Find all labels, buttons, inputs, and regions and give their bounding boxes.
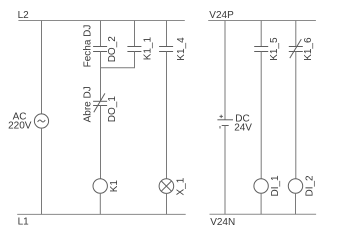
wire <box>166 193 168 214</box>
svg-text:V24N: V24N <box>210 217 235 228</box>
coil DI_2 <box>288 179 302 193</box>
wire <box>260 21 262 47</box>
svg-text:K1_5: K1_5 <box>269 37 280 61</box>
svg-text:Abre DJ: Abre DJ <box>83 86 94 122</box>
wire <box>134 21 136 47</box>
source G1 AC 220V <box>34 114 48 128</box>
wire <box>295 52 297 179</box>
wire <box>295 21 297 47</box>
source G2 battery DC 24V <box>217 120 233 126</box>
wire <box>100 52 134 68</box>
wire <box>166 52 168 179</box>
contact K1_4 (NO) <box>159 47 173 52</box>
value label DC 24V <box>234 113 252 133</box>
rail L2 <box>18 20 184 22</box>
wire <box>295 193 297 214</box>
svg-text:DO_2: DO_2 <box>107 36 118 63</box>
contact K1_6 (NC) <box>289 39 303 58</box>
coil K1 <box>93 179 107 193</box>
svg-text:24V: 24V <box>234 123 252 134</box>
svg-text:DI_1: DI_1 <box>270 175 281 197</box>
coil DI_1 <box>254 179 268 193</box>
wire <box>100 106 102 179</box>
wire <box>41 128 43 214</box>
wire <box>166 21 168 47</box>
svg-text:X_1: X_1 <box>176 177 187 195</box>
svg-text:L1: L1 <box>18 217 30 228</box>
rail L1 <box>17 213 186 215</box>
svg-text:DI_2: DI_2 <box>305 175 316 197</box>
svg-text:L2: L2 <box>18 10 30 21</box>
svg-text:K1_4: K1_4 <box>176 37 187 61</box>
wire <box>99 193 101 214</box>
contact K1_5 (NO) <box>254 47 268 52</box>
svg-text:DO_1: DO_1 <box>107 96 118 123</box>
svg-text:220V: 220V <box>8 121 32 132</box>
svg-text:K1: K1 <box>109 180 120 193</box>
wire <box>260 193 262 214</box>
wire <box>260 52 262 179</box>
polarity minus <box>219 126 221 129</box>
svg-text:Fecha DJ: Fecha DJ <box>83 25 94 68</box>
wire <box>100 52 102 102</box>
wire <box>41 21 43 114</box>
svg-text:K1_1: K1_1 <box>143 37 154 61</box>
contact DO_2 (Fecha DJ, NO) <box>93 47 107 52</box>
lamp X_1 <box>159 179 174 194</box>
polarity plus <box>220 115 223 118</box>
rail V24P <box>208 20 316 22</box>
wire <box>224 21 226 120</box>
contact DO_1 (Abre DJ, NC) <box>93 93 107 112</box>
wire <box>100 21 102 47</box>
rail V24N <box>210 213 317 215</box>
value label AC 220V <box>8 112 32 132</box>
svg-text:K1_6: K1_6 <box>303 37 314 61</box>
wire <box>224 126 226 215</box>
svg-text:V24P: V24P <box>209 10 234 21</box>
contact K1_1 (NO) <box>127 47 141 52</box>
